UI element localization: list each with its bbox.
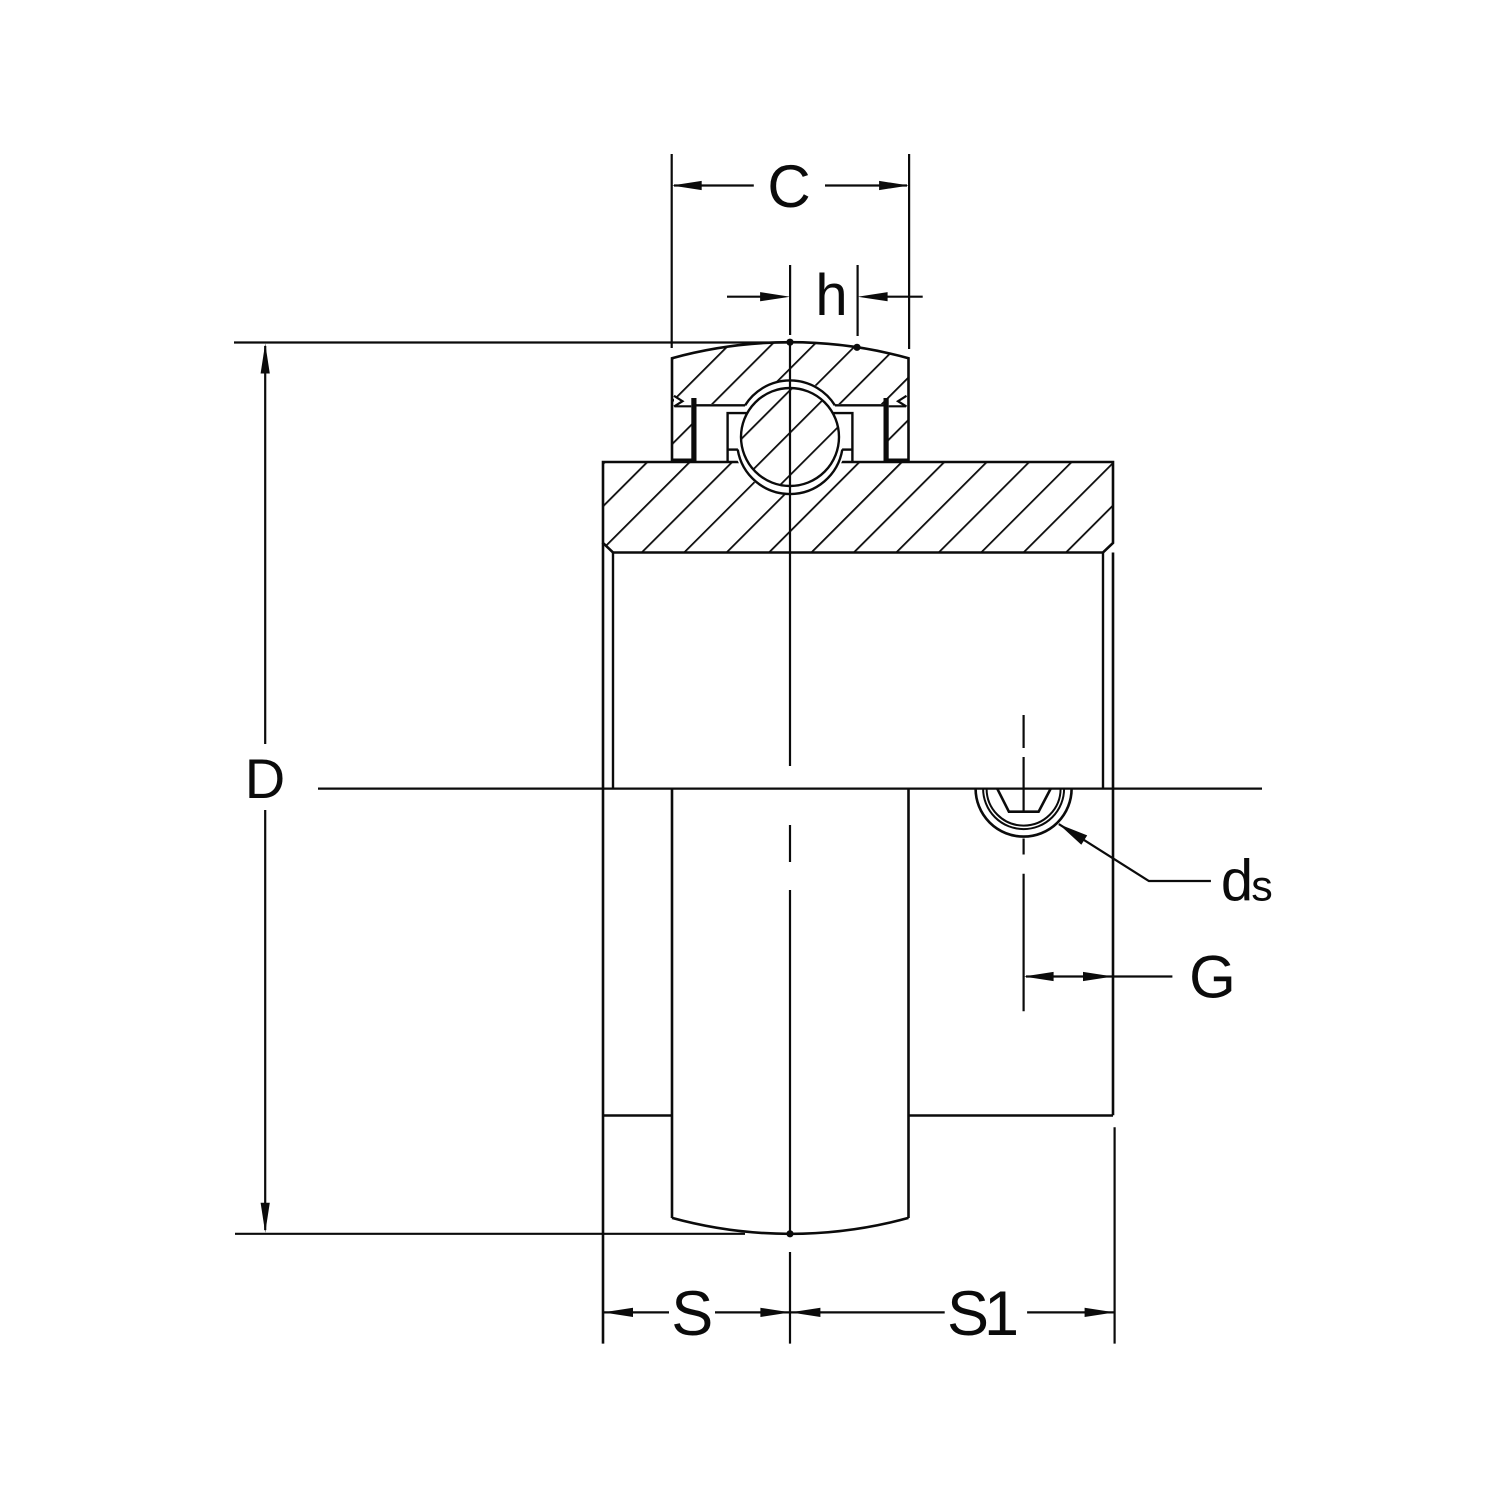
dimension h [727, 265, 923, 336]
svg-text:S: S [947, 1279, 989, 1349]
node dot at sphere bottom [786, 1230, 793, 1237]
outer ring raceway groove arc [745, 380, 835, 405]
set screw (lower half, with thread circles and hex socket) [976, 789, 1072, 837]
inner ring bore chamfer edges below axis [613, 553, 1103, 789]
ball (sectioned, hatched) [741, 388, 839, 486]
inner ring bottom silhouette [603, 1114, 1113, 1117]
inner ring (wide sectioned band, hatched) [603, 462, 1113, 553]
outer ring side silhouette below axis [672, 789, 909, 1218]
raceway groove opening (white) [733, 380, 848, 495]
svg-text:1: 1 [984, 1279, 1019, 1349]
right seal groove notch [898, 396, 907, 407]
outer ring spherical silhouette bottom arc [672, 1218, 909, 1234]
vertical centerline [789, 342, 791, 1344]
dimension S1 [790, 1127, 1114, 1343]
svg-text:S: S [671, 1279, 713, 1349]
leader and label ds [1059, 824, 1211, 881]
svg-text:G: G [1189, 944, 1236, 1011]
outer ring (spherical OD, sectioned, hatched) [672, 342, 909, 460]
svg-text:h: h [815, 263, 847, 328]
inner ring shoulders beside ball [728, 413, 853, 462]
dimension D [234, 343, 790, 1234]
node dot at h measuring point [853, 344, 860, 351]
node dot at sphere apex [786, 339, 793, 346]
svg-text:D: D [245, 747, 285, 810]
outer ring raceway faces [697, 404, 884, 406]
right seal [884, 398, 889, 462]
dimension G [1026, 975, 1172, 977]
left seal [691, 398, 696, 462]
svg-text:d: d [1221, 849, 1253, 914]
svg-text:C: C [767, 153, 810, 220]
bearing internal cavity (white) [697, 404, 884, 462]
left seal groove notch [674, 396, 683, 407]
svg-text:s: s [1251, 863, 1273, 911]
set screw centerline [1022, 715, 1024, 1011]
horizontal axis centerline [318, 787, 1262, 789]
inner ring right end face below axis [1112, 553, 1115, 1116]
dimension S [603, 1311, 790, 1313]
inner ring left end face below axis [602, 543, 605, 1344]
inner ring raceway groove arc [738, 450, 843, 494]
dimension C [672, 154, 909, 349]
